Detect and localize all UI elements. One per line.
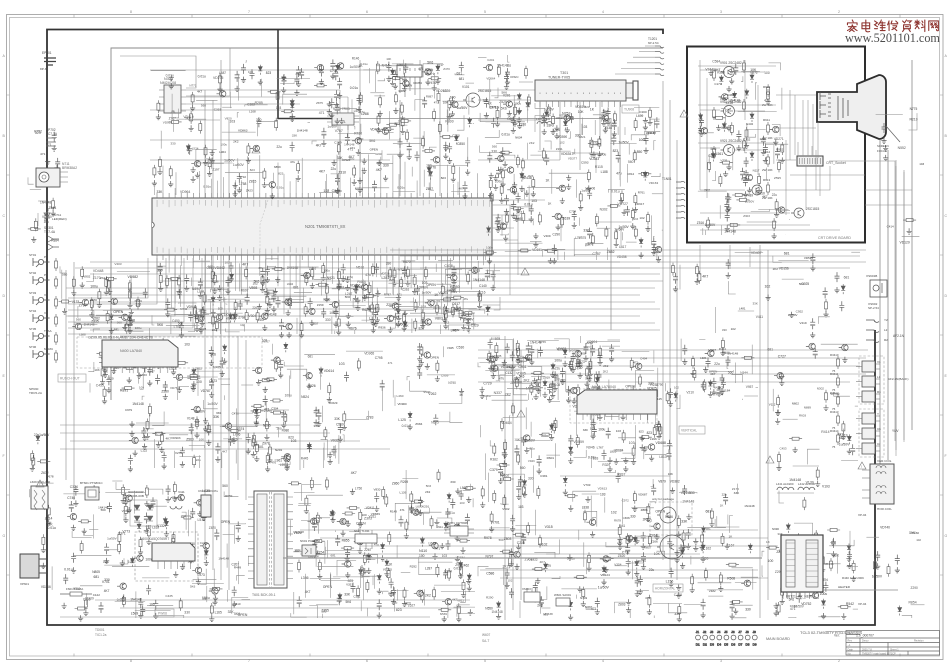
capacitor C7732	[52, 132, 57, 142]
wire	[163, 350, 171, 352]
resistor R2778	[297, 161, 300, 174]
ground	[158, 286, 163, 292]
capacitor C4250	[142, 362, 147, 372]
wire	[594, 120, 596, 135]
wire	[619, 102, 621, 180]
resistor R6980	[124, 503, 127, 516]
wire	[418, 293, 421, 305]
svg-text:471: 471	[263, 278, 268, 282]
svg-text:C909: C909	[441, 374, 449, 378]
svg-text:R2: R2	[884, 338, 888, 342]
svg-text:L168: L168	[249, 109, 256, 113]
electrolytic capacitor C1666	[321, 128, 326, 139]
svg-text:V-: V-	[44, 293, 47, 297]
ground	[290, 116, 295, 122]
svg-text:47u: 47u	[431, 81, 437, 85]
svg-text:R3414: R3414	[830, 429, 839, 433]
diode VD2422	[355, 284, 359, 294]
ground	[191, 167, 196, 173]
wire	[654, 141, 656, 151]
ground	[362, 158, 367, 164]
svg-text:VD271: VD271	[774, 137, 784, 141]
svg-text:VD759: VD759	[637, 559, 646, 563]
svg-text:R676: R676	[349, 327, 357, 331]
resistor R1733	[552, 114, 555, 127]
transistor V3366	[129, 437, 138, 443]
svg-text:1K: 1K	[459, 393, 463, 397]
capacitor C6390	[138, 598, 143, 608]
wire	[221, 383, 230, 385]
svg-text:103: 103	[442, 554, 448, 558]
transistor V6740	[123, 495, 132, 501]
ground	[386, 76, 391, 82]
ground	[504, 209, 509, 215]
transistor V2492	[282, 299, 291, 305]
capacitor C2666	[238, 300, 243, 310]
svg-text:VD129: VD129	[900, 241, 910, 245]
wire	[448, 325, 471, 330]
svg-text:L467: L467	[451, 329, 459, 333]
svg-text:2: 2	[838, 10, 840, 14]
diode VD921	[750, 151, 754, 161]
wire	[500, 103, 502, 118]
svg-text:OPEN: OPEN	[430, 356, 439, 360]
ground	[744, 170, 749, 176]
svg-text:R149: R149	[390, 510, 398, 514]
wire	[74, 322, 655, 324]
svg-text:XP-04: XP-04	[858, 513, 867, 517]
diode VD2463	[229, 313, 233, 323]
svg-text:R573: R573	[577, 360, 585, 364]
wire	[535, 103, 545, 108]
wire	[385, 293, 400, 297]
resistor R2828	[322, 263, 325, 276]
wire	[414, 306, 433, 308]
svg-text:V203: V203	[114, 262, 121, 266]
svg-text:C617: C617	[452, 302, 460, 306]
wire	[326, 181, 339, 193]
resistor R6706	[80, 541, 83, 554]
svg-text:100u: 100u	[555, 116, 562, 120]
electrolytic capacitor C2695	[279, 319, 284, 330]
wire	[237, 336, 239, 480]
capacitor C2850	[321, 308, 326, 318]
wire	[119, 338, 126, 342]
wire	[423, 64, 443, 77]
svg-text:Z580: Z580	[161, 389, 169, 393]
wire	[400, 117, 406, 127]
resistor R1232	[398, 119, 411, 122]
wire	[160, 131, 162, 149]
svg-text:N132: N132	[157, 524, 165, 528]
svg-text:V898: V898	[249, 286, 257, 290]
svg-text:L821: L821	[579, 135, 586, 139]
capacitor C2782	[308, 298, 313, 308]
resistor R9439	[727, 223, 740, 226]
svg-text:75: 75	[832, 445, 836, 449]
wire	[131, 276, 147, 293]
transistor V1141	[599, 115, 608, 121]
wire	[220, 302, 222, 318]
svg-text:47u: 47u	[616, 171, 622, 175]
resistor R1596	[497, 64, 500, 77]
svg-text:N611 TL431: N611 TL431	[354, 529, 370, 533]
ground	[180, 564, 185, 570]
svg-text:R603: R603	[799, 414, 806, 418]
svg-text:1u/50V: 1u/50V	[619, 225, 630, 229]
wire	[719, 205, 721, 218]
resistor R2521	[304, 304, 307, 317]
ground	[337, 93, 342, 99]
wire	[354, 127, 355, 130]
ground	[396, 321, 401, 327]
wire	[527, 96, 529, 123]
capacitor C1522	[552, 244, 557, 254]
wire	[303, 460, 305, 468]
svg-text:N209: N209	[126, 323, 133, 327]
svg-text:0.01u: 0.01u	[397, 186, 405, 190]
resistor R3669	[193, 455, 196, 468]
diode VD2279	[290, 102, 294, 112]
svg-text:103: 103	[616, 429, 621, 433]
svg-text:100: 100	[768, 559, 774, 563]
ground	[102, 367, 107, 373]
transistor V1371	[314, 65, 323, 71]
svg-text:J8: J8	[746, 630, 750, 634]
svg-text:5K6: 5K6	[190, 585, 196, 589]
svg-text:5: 5	[484, 10, 486, 14]
wire	[236, 408, 238, 437]
svg-text:L921: L921	[700, 356, 707, 360]
svg-text:R678: R678	[614, 518, 621, 522]
svg-text:V101: V101	[462, 85, 470, 89]
wire	[699, 245, 701, 275]
wire	[188, 323, 195, 331]
svg-text:V411: V411	[756, 315, 763, 319]
svg-text:VD590: VD590	[558, 135, 568, 139]
svg-text:1u/50V: 1u/50V	[618, 141, 629, 145]
wire	[260, 409, 289, 411]
wire	[323, 443, 325, 461]
ground	[138, 549, 143, 555]
svg-text:103: 103	[629, 441, 635, 445]
ground	[451, 176, 456, 182]
wire	[90, 329, 660, 331]
electrolytic capacitor C2657	[282, 74, 287, 85]
svg-text:C006-00B: C006-00B	[130, 494, 144, 498]
capacitor C3286	[839, 301, 844, 311]
svg-text:Y2: Y2	[884, 318, 888, 322]
ground	[275, 277, 280, 283]
capacitor C6796	[63, 574, 68, 584]
capacitor C2762	[165, 298, 170, 308]
wire	[283, 94, 307, 104]
svg-text:!: !	[39, 483, 40, 487]
wire	[191, 370, 221, 372]
resistor R2469	[371, 263, 374, 276]
svg-text:Y: Y	[877, 412, 879, 416]
svg-text:C795: C795	[375, 356, 383, 360]
svg-text:22u: 22u	[546, 564, 552, 568]
wire	[676, 140, 678, 580]
ground	[643, 118, 648, 124]
resistor R2274	[190, 111, 193, 124]
ground	[554, 133, 559, 139]
svg-text:681: 681	[620, 524, 626, 528]
svg-text:471: 471	[264, 408, 270, 412]
wire	[205, 159, 211, 169]
resistor R1151	[538, 212, 541, 225]
wire	[478, 57, 487, 59]
resistor R1451	[634, 226, 637, 239]
wire	[513, 174, 515, 186]
electrolytic capacitor C2888	[260, 268, 265, 279]
wire	[467, 137, 469, 161]
wire	[626, 241, 637, 243]
svg-text:Z595: Z595	[774, 176, 781, 180]
wire	[620, 227, 622, 248]
svg-text:5: 5	[484, 659, 486, 663]
svg-text:471: 471	[633, 361, 638, 365]
svg-text:P-: P-	[44, 255, 47, 259]
wire	[132, 363, 134, 373]
svg-text:471: 471	[434, 100, 439, 104]
ground	[52, 145, 57, 151]
wire	[60, 424, 300, 426]
svg-text:VD156: VD156	[779, 267, 789, 271]
ground	[396, 315, 401, 321]
wire	[353, 298, 358, 307]
svg-text:D3: D3	[710, 643, 714, 647]
svg-text:330: 330	[491, 150, 497, 154]
svg-text:V587: V587	[426, 69, 433, 73]
wire	[428, 165, 468, 167]
resistor R7258	[129, 288, 132, 301]
resistor R3518	[284, 411, 287, 424]
wire	[865, 161, 895, 441]
diode VD4553	[103, 361, 107, 371]
resistor R2765	[300, 321, 303, 334]
capacitor C2332	[187, 145, 192, 155]
wire	[478, 357, 866, 359]
svg-text:VD761: VD761	[170, 386, 179, 390]
svg-text:C140: C140	[479, 284, 487, 288]
svg-text:V901 2SC2482: V901 2SC2482	[720, 61, 742, 65]
svg-text:V811: V811	[457, 598, 464, 602]
diode VD2910	[486, 305, 490, 315]
svg-text:1N4148: 1N4148	[530, 341, 542, 345]
IC N201 pin labels	[157, 200, 490, 255]
svg-text:R898: R898	[433, 306, 441, 310]
ground	[726, 164, 731, 170]
wire	[574, 239, 577, 257]
ground	[97, 302, 102, 308]
ground	[726, 86, 731, 92]
wire	[468, 96, 470, 115]
svg-text:22u: 22u	[212, 328, 217, 332]
ground	[645, 226, 650, 232]
wire	[104, 341, 109, 347]
capacitor C1584	[484, 98, 489, 108]
svg-text:L688: L688	[79, 332, 86, 336]
svg-text:R855: R855	[342, 539, 350, 543]
svg-text:100u: 100u	[554, 359, 562, 363]
wire	[520, 350, 522, 600]
wire	[207, 301, 210, 314]
wire	[120, 56, 196, 88]
ground	[612, 131, 617, 137]
svg-text:Z203: Z203	[386, 303, 394, 307]
wire	[338, 305, 366, 307]
ground	[217, 285, 222, 291]
resistor R3835	[160, 432, 163, 445]
ground	[324, 296, 329, 302]
electrolytic capacitor C2160	[466, 312, 471, 323]
capacitor C3273	[246, 433, 251, 443]
capacitor C9381	[763, 144, 768, 154]
wire	[423, 170, 425, 187]
svg-text:R952: R952	[776, 147, 784, 151]
resistor R3596	[228, 429, 241, 432]
wire	[535, 116, 546, 133]
ground	[194, 432, 199, 438]
wire	[698, 65, 776, 67]
svg-text:J4: J4	[717, 630, 721, 634]
wire	[698, 190, 727, 192]
wire	[239, 267, 241, 288]
ground	[254, 456, 259, 462]
svg-text:C128: C128	[674, 593, 682, 597]
ground	[443, 323, 448, 329]
resistor R1709	[605, 226, 608, 239]
wire	[223, 395, 225, 400]
svg-text:V879: V879	[658, 480, 666, 484]
ground	[565, 127, 570, 133]
wire	[776, 159, 796, 161]
svg-text:103: 103	[919, 162, 924, 166]
electrolytic capacitor C1913	[333, 69, 338, 80]
resistor R2545	[289, 296, 292, 309]
capacitor C1748	[511, 116, 516, 126]
ground	[512, 120, 517, 126]
svg-text:1u/50V: 1u/50V	[464, 318, 475, 322]
capacitor C1909	[465, 157, 470, 167]
svg-text:V820: V820	[225, 117, 232, 121]
svg-text:R800: R800	[445, 120, 453, 124]
wire	[818, 317, 830, 324]
wire	[504, 336, 506, 620]
svg-text:681: 681	[767, 347, 773, 351]
svg-text:L850: L850	[635, 150, 643, 154]
svg-text:V757: V757	[335, 129, 343, 133]
diode VD7853	[109, 313, 113, 323]
resistor R1444	[532, 177, 535, 190]
svg-text:V252: V252	[565, 115, 573, 119]
ground	[339, 118, 344, 124]
resistor R1862	[525, 66, 528, 79]
wire	[186, 90, 348, 150]
svg-text:R752: R752	[34, 130, 42, 134]
resistor R3105	[255, 441, 258, 454]
resistor R2743	[247, 143, 250, 156]
svg-text:R292: R292	[410, 564, 417, 568]
wire	[220, 426, 258, 428]
wire	[491, 95, 517, 97]
electrolytic capacitor C2476	[402, 266, 407, 277]
svg-text:N861: N861	[585, 606, 593, 610]
diode VD901	[750, 73, 754, 83]
svg-text:1u/50V: 1u/50V	[794, 605, 805, 609]
resistor R3966	[903, 219, 916, 222]
svg-text:J3: J3	[710, 630, 714, 634]
resistor R9214	[745, 127, 748, 140]
svg-text:N344: N344	[740, 370, 748, 374]
wire	[527, 186, 565, 188]
svg-text:Z172: Z172	[609, 122, 616, 126]
svg-text:LED(RED): LED(RED)	[52, 217, 67, 221]
svg-text:VD783: VD783	[570, 349, 579, 353]
svg-text:0.01u: 0.01u	[447, 511, 455, 515]
transistor V1942	[422, 69, 431, 75]
svg-text:N889: N889	[804, 405, 812, 409]
wire	[370, 92, 384, 94]
ground	[601, 120, 606, 126]
resistor R2810	[316, 283, 329, 286]
svg-text:J5: J5	[724, 630, 728, 634]
svg-text:471: 471	[329, 513, 335, 517]
wire	[338, 435, 340, 464]
svg-text:0.01u: 0.01u	[726, 109, 734, 113]
resistor R2233	[153, 165, 156, 178]
svg-text:N337: N337	[494, 391, 502, 395]
svg-text:4K7: 4K7	[762, 195, 768, 199]
capacitor C6868	[71, 553, 76, 563]
wire	[278, 30, 345, 119]
wire	[549, 172, 588, 174]
resistor R1783	[542, 148, 545, 161]
resistor R1303	[400, 102, 403, 115]
ground	[729, 68, 734, 74]
ground	[520, 173, 525, 179]
svg-text:823: 823	[492, 368, 498, 372]
svg-text:V219: V219	[799, 321, 806, 325]
wire	[191, 278, 193, 287]
svg-text:SP-2.54: SP-2.54	[868, 306, 879, 310]
wire	[393, 143, 422, 145]
wire	[732, 148, 734, 171]
ground	[122, 324, 127, 330]
svg-text:330: 330	[583, 428, 588, 432]
wire	[478, 89, 535, 91]
wire	[776, 127, 816, 129]
resistor R2244	[275, 118, 278, 131]
svg-text:N775: N775	[910, 107, 918, 111]
svg-text:MEMU: MEMU	[44, 347, 53, 351]
wire	[700, 109, 720, 111]
resistor R7155	[28, 227, 41, 230]
main board thick outline	[47, 30, 875, 626]
svg-text:22u: 22u	[772, 193, 777, 197]
wire	[208, 298, 227, 300]
resistor R2928	[459, 307, 462, 320]
wire	[650, 118, 660, 120]
svg-text:100: 100	[764, 71, 770, 75]
ground	[210, 158, 215, 164]
resistor R9632	[719, 174, 722, 187]
ground	[647, 119, 652, 125]
svg-text:2K2: 2K2	[704, 189, 710, 193]
svg-text:4K7: 4K7	[702, 274, 708, 278]
